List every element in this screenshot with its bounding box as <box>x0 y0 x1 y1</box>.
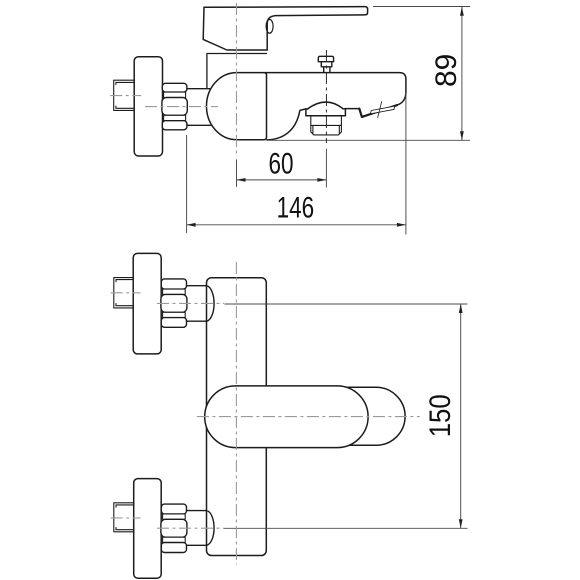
svg-text:89: 89 <box>430 54 463 87</box>
svg-text:146: 146 <box>277 190 315 224</box>
svg-text:150: 150 <box>423 394 456 437</box>
svg-text:60: 60 <box>268 146 293 180</box>
